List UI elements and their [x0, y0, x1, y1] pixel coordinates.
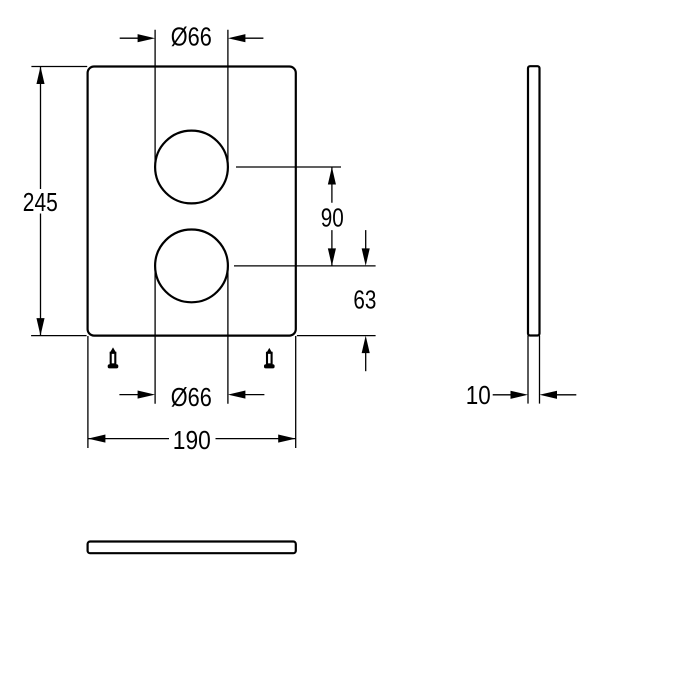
screw symbol left	[108, 347, 119, 368]
plate front view outline	[88, 67, 296, 336]
dim Ø66 bottom: left arrowhead	[138, 391, 156, 399]
dim Ø66 top: right arrow tail	[244, 37, 263, 39]
dim 90: dimension line	[331, 167, 333, 266]
dim 245: bottom extension line	[31, 335, 87, 337]
dim 10: right extension line	[539, 336, 541, 404]
dim 63: bottom arrowhead	[362, 336, 370, 354]
svg-text:190: 190	[173, 425, 211, 455]
dim Ø66 top: left extension line	[154, 30, 156, 167]
svg-text:10: 10	[466, 380, 491, 410]
dim Ø66 bottom: right extension line	[227, 266, 229, 404]
dim Ø66 bottom: right arrowhead	[228, 391, 246, 399]
hole circle bottom Ø66	[155, 230, 228, 303]
dim 10: right arrowhead	[540, 391, 558, 399]
screw symbol right	[264, 348, 275, 369]
dim 190: right extension line	[295, 336, 297, 448]
dim Ø66 bottom: left arrow tail	[119, 394, 139, 396]
svg-text:Ø66: Ø66	[171, 382, 212, 412]
dim 245: dimension line	[40, 67, 42, 336]
dim Ø66 top: left arrow tail	[120, 37, 139, 39]
dim 90: top arrowhead	[328, 167, 336, 185]
dim 90/63: lower centre leader line	[234, 265, 376, 267]
dim 190: right arrowhead	[278, 435, 296, 443]
dim 10: left arrowhead	[511, 391, 529, 399]
svg-text:Ø66: Ø66	[171, 22, 212, 52]
dim 90: upper centre leader line	[236, 166, 341, 168]
dim Ø66 bottom: right arrow tail	[244, 394, 264, 396]
svg-text:245: 245	[23, 187, 58, 217]
dim 63: top arrow tail	[365, 230, 367, 249]
bottom view plate outline	[88, 542, 296, 554]
hole circle top Ø66	[155, 131, 228, 204]
dim 63: bottom extension line	[297, 335, 376, 337]
dim 245: top arrowhead	[36, 67, 44, 85]
svg-text:90: 90	[321, 202, 344, 232]
dim Ø66 top: right arrowhead	[228, 34, 246, 42]
dim 190: left extension line	[87, 336, 89, 448]
dim 63: top arrowhead	[362, 248, 370, 266]
dim 10: left arrow tail	[493, 394, 512, 396]
dim 63: bottom arrow tail	[365, 352, 367, 371]
dim Ø66 top: left arrowhead	[138, 34, 156, 42]
dim 245: bottom arrowhead	[36, 318, 44, 336]
dim 90: bottom arrowhead	[328, 248, 336, 266]
dim 10: left extension line	[527, 336, 529, 404]
dim 245: top extension line	[31, 66, 87, 68]
dim 190: dimension line	[88, 438, 296, 440]
dim 190: left arrowhead	[88, 435, 106, 443]
side view plate outline	[528, 66, 540, 335]
dim 10: right arrow tail	[557, 394, 576, 396]
svg-text:63: 63	[353, 285, 376, 315]
dim Ø66 top: right extension line	[227, 30, 229, 167]
dim Ø66 bottom: left extension line	[154, 266, 156, 404]
